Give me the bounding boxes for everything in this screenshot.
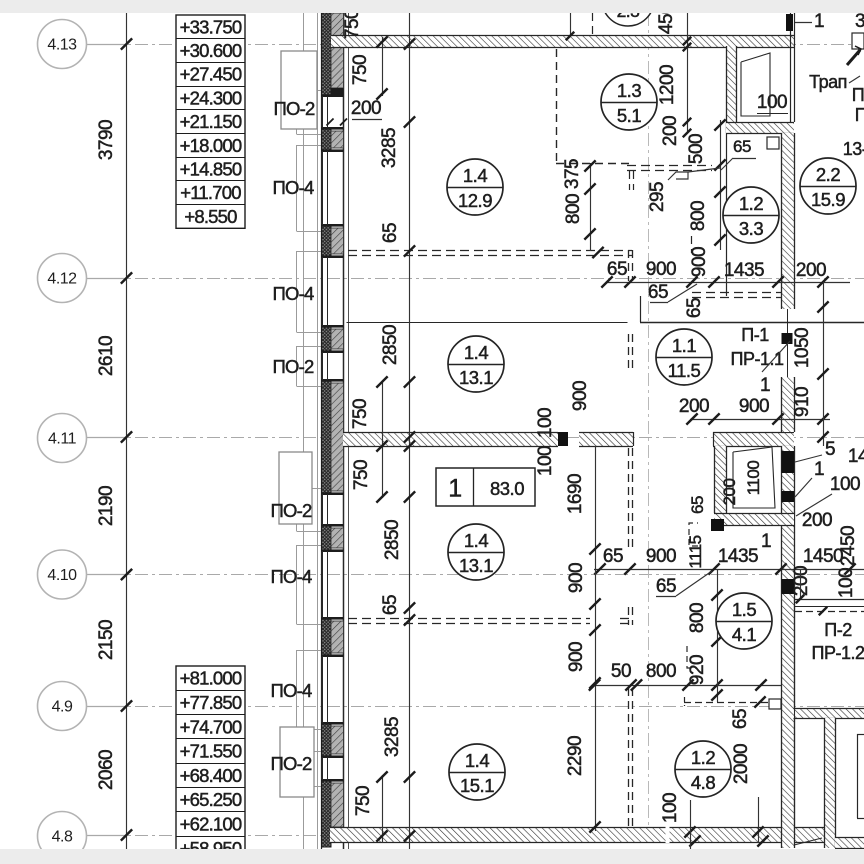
svg-text:800: 800 — [688, 201, 709, 231]
svg-text:65: 65 — [380, 595, 401, 615]
svg-text:65: 65 — [688, 496, 707, 514]
svg-text:14: 14 — [848, 446, 864, 467]
svg-text:ПО-4: ПО-4 — [271, 566, 312, 587]
svg-text:200: 200 — [802, 510, 832, 531]
svg-text:1435: 1435 — [724, 260, 764, 281]
svg-text:ПО-2: ПО-2 — [271, 753, 312, 774]
svg-text:ПО-2: ПО-2 — [271, 500, 312, 521]
svg-text:1.2: 1.2 — [739, 193, 763, 214]
svg-text:1200: 1200 — [657, 65, 678, 105]
svg-text:1.4: 1.4 — [464, 342, 488, 363]
svg-text:13.1: 13.1 — [459, 555, 493, 576]
svg-text:13.1: 13.1 — [459, 367, 493, 388]
svg-text:4.13: 4.13 — [47, 37, 77, 54]
svg-text:П: П — [855, 105, 864, 125]
svg-text:100: 100 — [535, 408, 556, 438]
svg-text:+14.850: +14.850 — [180, 159, 242, 180]
svg-text:65: 65 — [380, 223, 401, 243]
svg-text:+21.150: +21.150 — [180, 111, 242, 132]
svg-text:200: 200 — [660, 116, 681, 146]
svg-text:800: 800 — [687, 603, 708, 633]
svg-text:2000: 2000 — [731, 744, 752, 784]
svg-text:3.3: 3.3 — [739, 218, 763, 239]
svg-text:1.4: 1.4 — [465, 750, 489, 771]
svg-text:+24.300: +24.300 — [180, 87, 242, 108]
svg-text:2060: 2060 — [96, 750, 117, 790]
svg-text:750: 750 — [353, 786, 374, 816]
svg-text:1435: 1435 — [718, 546, 758, 567]
svg-text:200: 200 — [796, 260, 826, 281]
svg-text:4.12: 4.12 — [47, 271, 77, 288]
svg-text:910: 910 — [792, 387, 813, 417]
svg-text:5: 5 — [825, 439, 835, 460]
svg-text:2450: 2450 — [838, 526, 859, 566]
svg-text:800: 800 — [646, 661, 676, 682]
svg-text:200: 200 — [351, 98, 381, 119]
svg-text:+18.000: +18.000 — [180, 135, 242, 156]
svg-text:50: 50 — [611, 661, 631, 682]
svg-text:ПО-4: ПО-4 — [273, 177, 314, 198]
svg-text:900: 900 — [566, 642, 587, 672]
svg-text:2190: 2190 — [96, 486, 117, 526]
svg-text:1115: 1115 — [686, 535, 705, 568]
svg-text:65: 65 — [730, 709, 751, 729]
svg-text:900: 900 — [739, 396, 769, 417]
svg-text:ПО-2: ПО-2 — [273, 356, 314, 377]
svg-text:83.0: 83.0 — [490, 478, 524, 499]
svg-text:65: 65 — [648, 282, 668, 303]
svg-text:+11.700: +11.700 — [180, 182, 241, 203]
svg-text:+81.000: +81.000 — [180, 668, 242, 689]
svg-text:2850: 2850 — [380, 325, 401, 365]
svg-text:2610: 2610 — [96, 336, 117, 376]
svg-text:+8.550: +8.550 — [184, 206, 237, 227]
svg-text:+71.550: +71.550 — [180, 741, 242, 762]
svg-text:1690: 1690 — [565, 474, 586, 514]
svg-text:+74.700: +74.700 — [180, 716, 242, 737]
svg-text:1: 1 — [448, 475, 461, 503]
svg-text:2150: 2150 — [96, 620, 117, 660]
svg-text:Трап: Трап — [809, 72, 847, 92]
svg-text:1.4: 1.4 — [464, 530, 488, 551]
svg-text:15.9: 15.9 — [811, 189, 845, 210]
svg-text:800: 800 — [563, 194, 584, 224]
svg-text:1: 1 — [814, 459, 824, 480]
svg-text:1.2: 1.2 — [691, 747, 715, 768]
svg-text:1050: 1050 — [792, 328, 813, 368]
svg-text:900: 900 — [570, 381, 591, 411]
svg-text:100: 100 — [660, 793, 681, 823]
svg-text:+77.850: +77.850 — [180, 692, 242, 713]
svg-text:5.1: 5.1 — [617, 105, 641, 126]
svg-text:100: 100 — [535, 446, 556, 476]
svg-text:ПР-1.2: ПР-1.2 — [812, 643, 864, 663]
svg-text:295: 295 — [647, 182, 668, 212]
svg-text:3285: 3285 — [379, 128, 400, 168]
svg-text:100: 100 — [836, 568, 857, 598]
svg-text:100: 100 — [830, 474, 860, 495]
svg-text:200: 200 — [791, 566, 812, 596]
svg-text:ПО-2: ПО-2 — [274, 98, 315, 119]
svg-text:П-1: П-1 — [741, 325, 769, 345]
svg-text:100: 100 — [757, 92, 787, 113]
svg-text:П: П — [852, 85, 864, 105]
svg-text:65: 65 — [607, 259, 627, 280]
svg-text:3790: 3790 — [96, 120, 117, 160]
svg-text:1: 1 — [814, 11, 824, 32]
svg-text:200: 200 — [720, 479, 739, 506]
svg-text:11.5: 11.5 — [668, 360, 701, 381]
svg-text:900: 900 — [646, 546, 676, 567]
svg-text:375: 375 — [562, 159, 583, 189]
svg-text:1.4: 1.4 — [463, 165, 487, 186]
svg-text:750: 750 — [351, 460, 372, 490]
svg-text:900: 900 — [646, 259, 676, 280]
svg-text:1.5: 1.5 — [732, 599, 756, 620]
svg-text:1.3: 1.3 — [617, 80, 641, 101]
svg-text:+68.400: +68.400 — [180, 765, 242, 786]
svg-text:4.11: 4.11 — [48, 431, 77, 448]
svg-text:ПО-4: ПО-4 — [273, 283, 314, 304]
svg-text:65: 65 — [684, 298, 705, 318]
svg-text:200: 200 — [679, 396, 709, 417]
svg-text:+30.600: +30.600 — [180, 40, 242, 61]
svg-text:ПР-1.1: ПР-1.1 — [731, 349, 784, 369]
svg-text:4.1: 4.1 — [732, 624, 756, 645]
svg-text:15.1: 15.1 — [460, 775, 494, 796]
svg-text:920: 920 — [687, 655, 708, 685]
svg-text:1.1: 1.1 — [672, 335, 696, 356]
svg-text:65: 65 — [656, 576, 676, 597]
svg-text:750: 750 — [350, 399, 371, 429]
svg-text:4.8: 4.8 — [691, 772, 715, 793]
svg-text:750: 750 — [350, 55, 371, 85]
svg-text:900: 900 — [566, 563, 587, 593]
svg-text:+62.100: +62.100 — [180, 814, 242, 835]
svg-text:ПО-4: ПО-4 — [271, 680, 312, 701]
svg-text:750: 750 — [342, 9, 363, 39]
svg-text:2.2: 2.2 — [816, 164, 840, 185]
svg-text:+27.450: +27.450 — [180, 64, 242, 85]
svg-text:65: 65 — [733, 137, 751, 156]
svg-text:900: 900 — [689, 247, 710, 277]
svg-text:65: 65 — [603, 546, 623, 567]
svg-text:П-2: П-2 — [824, 620, 852, 640]
svg-text:2290: 2290 — [565, 736, 586, 776]
svg-text:+65.250: +65.250 — [180, 789, 242, 810]
svg-text:1: 1 — [760, 375, 770, 396]
svg-text:4.10: 4.10 — [47, 567, 77, 584]
svg-text:4.9: 4.9 — [52, 699, 73, 716]
svg-text:2850: 2850 — [382, 520, 403, 560]
svg-text:+33.750: +33.750 — [180, 16, 242, 37]
svg-text:500: 500 — [686, 134, 707, 164]
svg-text:3285: 3285 — [382, 717, 403, 757]
svg-text:13-: 13- — [843, 139, 864, 159]
svg-text:4.8: 4.8 — [52, 829, 73, 846]
svg-text:12.9: 12.9 — [458, 190, 492, 211]
svg-text:1: 1 — [761, 531, 771, 552]
svg-text:3: 3 — [855, 11, 864, 32]
svg-text:1100: 1100 — [744, 461, 763, 496]
